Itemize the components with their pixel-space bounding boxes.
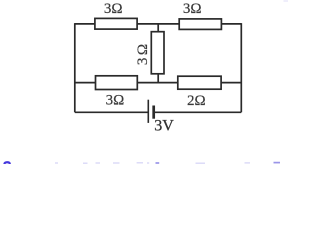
wire: stub from R3 bottom to middle rail bbox=[157, 73, 159, 83]
wire: middle rail bbox=[75, 82, 242, 84]
cropped blue text fragment: circled number top arc bbox=[4, 162, 10, 164]
resistor R5 (2 ohm, middle-right) bbox=[178, 76, 221, 89]
svg-text:3Ω: 3Ω bbox=[135, 41, 151, 65]
battery B1 long thin plate bbox=[147, 100, 149, 123]
wire: right rail bbox=[240, 23, 242, 112]
faint stray mark top-right bbox=[284, 0, 289, 2]
resistor R1 (3 ohm, top-left) bbox=[95, 18, 137, 29]
svg-text:3Ω: 3Ω bbox=[106, 93, 125, 109]
svg-text:3Ω: 3Ω bbox=[183, 1, 202, 17]
svg-text:3Ω: 3Ω bbox=[104, 1, 123, 17]
svg-text:2Ω: 2Ω bbox=[187, 93, 206, 109]
resistor R3 (3 ohm, vertical middle) bbox=[151, 32, 164, 74]
wire: bottom rail right segment bbox=[154, 111, 242, 113]
cropped blue text fragment: darker letter tops bbox=[156, 162, 281, 164]
wire: stub from top rail to R3 top bbox=[157, 24, 159, 33]
wire: bottom rail left segment bbox=[75, 111, 149, 113]
resistor R2 (3 ohm, top-right) bbox=[179, 19, 221, 30]
wire: left rail bbox=[74, 23, 76, 112]
wire: top rail bbox=[75, 23, 242, 25]
cropped blue text fragment: faint letter tops bbox=[55, 162, 250, 164]
resistor R4 (3 ohm, middle-left) bbox=[96, 76, 138, 90]
svg-text:3V: 3V bbox=[154, 118, 174, 135]
battery B1 short thick plate bbox=[152, 106, 155, 119]
